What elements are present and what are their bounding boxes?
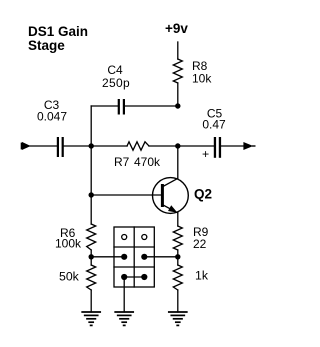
wire base — [91, 194, 161, 196]
svg-text:+9v: +9v — [165, 21, 188, 36]
pin open contact left — [122, 235, 127, 240]
resistor R7 — [127, 142, 149, 150]
svg-text:Stage: Stage — [28, 38, 65, 53]
resistor R6 — [87, 224, 96, 250]
wire collector node to C5 — [178, 145, 214, 147]
switch SW1 body — [114, 227, 154, 287]
svg-text:250p: 250p — [102, 76, 130, 90]
resistor 1k — [173, 265, 182, 290]
ground under 1k — [169, 312, 187, 325]
wire C4 branch right segment — [125, 105, 178, 107]
svg-text:10k: 10k — [192, 72, 212, 86]
svg-text:C4: C4 — [107, 63, 123, 77]
pin wiper right — [141, 254, 147, 260]
transistor Q2 — [153, 178, 189, 214]
ground under switch — [115, 312, 133, 325]
svg-text:Q2: Q2 — [194, 186, 212, 201]
wire base node down to R6 — [90, 195, 92, 224]
svg-text:R7: R7 — [114, 155, 130, 169]
value label R6 100k — [55, 226, 82, 251]
svg-text:0.47: 0.47 — [202, 118, 226, 132]
svg-text:DS1 Gain: DS1 Gain — [28, 24, 88, 39]
title label — [28, 24, 88, 53]
wire R8 bottom to node C4-junction — [177, 83, 179, 106]
wire 50k to ground — [90, 290, 92, 312]
wire input arrow to C3 — [30, 145, 57, 147]
node pot wiper junction — [89, 254, 94, 259]
node C4-junction — [175, 103, 180, 108]
node base junction — [89, 192, 94, 197]
value label R8 10k — [192, 59, 212, 86]
value label C3 0.047 — [37, 98, 67, 124]
wire C3 to input node — [64, 145, 91, 147]
resistor 50k — [87, 265, 96, 290]
wire pot node to switch — [91, 256, 124, 258]
svg-text:22: 22 — [193, 237, 207, 251]
svg-text:0.047: 0.047 — [37, 110, 67, 124]
wire R7 to collector node — [149, 145, 178, 147]
output arrow — [243, 142, 255, 150]
wire C4 branch left segment — [91, 105, 118, 107]
wire collector node down to Q2 — [177, 146, 179, 178]
wire between bottom pins — [124, 276, 144, 278]
svg-text:1k: 1k — [195, 269, 209, 283]
pin open contact right — [142, 235, 147, 240]
wire C5 to output arrow — [221, 145, 244, 147]
svg-text:+: + — [202, 147, 209, 161]
value label R9 22 — [193, 225, 209, 251]
node emitter junction — [175, 254, 180, 259]
svg-text:100k: 100k — [55, 237, 82, 251]
pin bottom right — [141, 274, 147, 280]
capacitor C3 — [57, 137, 64, 157]
resistor R9 — [173, 226, 182, 250]
capacitor C5 — [214, 137, 221, 158]
svg-text:50k: 50k — [59, 270, 80, 284]
wire R6 to pot node — [90, 250, 92, 265]
input arrow — [22, 142, 31, 150]
value label C4 250p — [102, 63, 130, 90]
wire input node down to base node — [90, 146, 92, 195]
wire switch to emitter branch — [144, 256, 178, 258]
svg-text:470k: 470k — [134, 155, 161, 169]
value label C5 0.47 — [202, 106, 226, 131]
wire input node to R7 — [91, 145, 127, 147]
wire +9v to R8 top — [177, 42, 179, 59]
resistor R8 — [173, 59, 182, 83]
node collector junction — [175, 143, 180, 148]
wire C4 corner down to input node — [90, 106, 92, 146]
wire 1k to ground — [177, 290, 179, 312]
pin wiper left — [121, 254, 127, 260]
value label R7 470k — [114, 155, 161, 169]
wire emitter to R9 — [177, 213, 179, 226]
wire switch to ground — [123, 277, 125, 312]
wire R9 to emitter node — [177, 250, 179, 265]
capacitor C4 — [118, 99, 125, 115]
pin bottom left — [121, 274, 127, 280]
ground under 50k — [82, 312, 100, 325]
node input junction — [89, 143, 94, 148]
